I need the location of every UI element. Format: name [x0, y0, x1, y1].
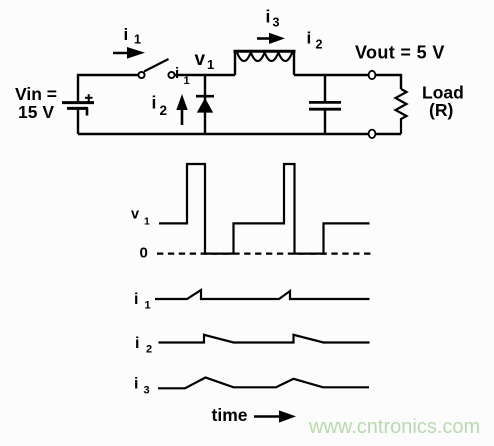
capacitor C1 [309, 75, 341, 134]
wire top-left from battery to switch [78, 75, 139, 103]
zero reference dashed line [157, 253, 371, 255]
svg-text:Vin =: Vin = [15, 84, 57, 104]
waveform v1 trace [159, 164, 370, 254]
svg-text:1: 1 [145, 300, 151, 312]
battery Vin [62, 94, 94, 115]
waveform i1 trace [155, 290, 370, 299]
resistor Load R [396, 89, 407, 134]
switch S1 [138, 59, 174, 78]
svg-text:www.cntronics.com: www.cntronics.com [308, 416, 480, 438]
label i3 waveform [134, 376, 150, 397]
label i1 at switch contact [175, 65, 190, 87]
svg-text:v: v [131, 207, 139, 223]
svg-text:i: i [152, 93, 157, 113]
svg-text:i: i [134, 376, 138, 393]
wire battery bottom lead [77, 108, 79, 134]
wire bottom rail [78, 133, 401, 136]
label i2 waveform [135, 335, 152, 356]
wire diode branch [204, 75, 206, 134]
label i1 above switch [124, 25, 142, 47]
svg-text:1: 1 [184, 75, 190, 87]
wire switch to inductor [175, 74, 235, 76]
svg-text:2: 2 [146, 344, 152, 356]
current arrow i1 [113, 47, 145, 59]
svg-text:3: 3 [273, 16, 280, 30]
inductor L1 [234, 51, 296, 75]
time axis arrow [254, 410, 296, 422]
label i2 right of inductor [307, 29, 323, 52]
svg-text:v: v [195, 49, 206, 70]
svg-text:15 V: 15 V [18, 102, 54, 122]
label i2 left of arrow [152, 93, 168, 119]
svg-text:i: i [266, 7, 271, 27]
label Load (R) [422, 83, 464, 120]
wire inductor to load [294, 75, 401, 89]
svg-text:i: i [134, 291, 138, 308]
svg-text:2: 2 [316, 38, 323, 52]
svg-text:(R): (R) [429, 100, 453, 120]
svg-text:1: 1 [144, 216, 150, 228]
label Vin = 15 V [15, 84, 57, 122]
waveform i2 trace [159, 335, 370, 343]
terminal Vout top [369, 71, 376, 79]
svg-text:time: time [212, 405, 248, 425]
label i1 waveform [134, 291, 151, 312]
current arrow i2 [176, 94, 187, 125]
terminal Vout bottom [369, 130, 376, 138]
label i3 [266, 7, 280, 30]
svg-text:2: 2 [160, 103, 168, 118]
svg-text:1: 1 [207, 57, 214, 72]
current arrow i3 [257, 33, 285, 44]
node v1 label [195, 49, 215, 72]
svg-text:i: i [175, 65, 179, 82]
svg-text:i: i [124, 25, 129, 44]
label v1 waveform [131, 207, 150, 228]
svg-text:i: i [135, 335, 139, 352]
svg-text:Vout = 5 V: Vout = 5 V [355, 43, 445, 63]
svg-text:1: 1 [134, 33, 141, 47]
svg-text:0: 0 [140, 245, 148, 262]
svg-text:i: i [307, 29, 312, 48]
svg-text:3: 3 [144, 385, 150, 397]
diode D1 [196, 96, 214, 112]
waveform i3 trace [158, 378, 369, 389]
